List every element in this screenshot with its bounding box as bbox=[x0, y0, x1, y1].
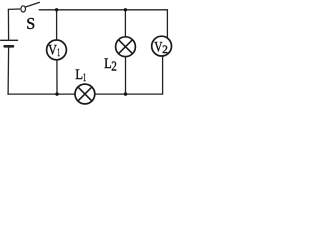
svg-text:S: S bbox=[26, 14, 35, 33]
svg-text:1: 1 bbox=[57, 47, 60, 59]
svg-text:V: V bbox=[48, 43, 57, 59]
svg-text:2: 2 bbox=[162, 44, 168, 56]
svg-text:2: 2 bbox=[111, 58, 117, 73]
svg-text:L: L bbox=[75, 67, 83, 83]
svg-text:1: 1 bbox=[83, 70, 86, 84]
